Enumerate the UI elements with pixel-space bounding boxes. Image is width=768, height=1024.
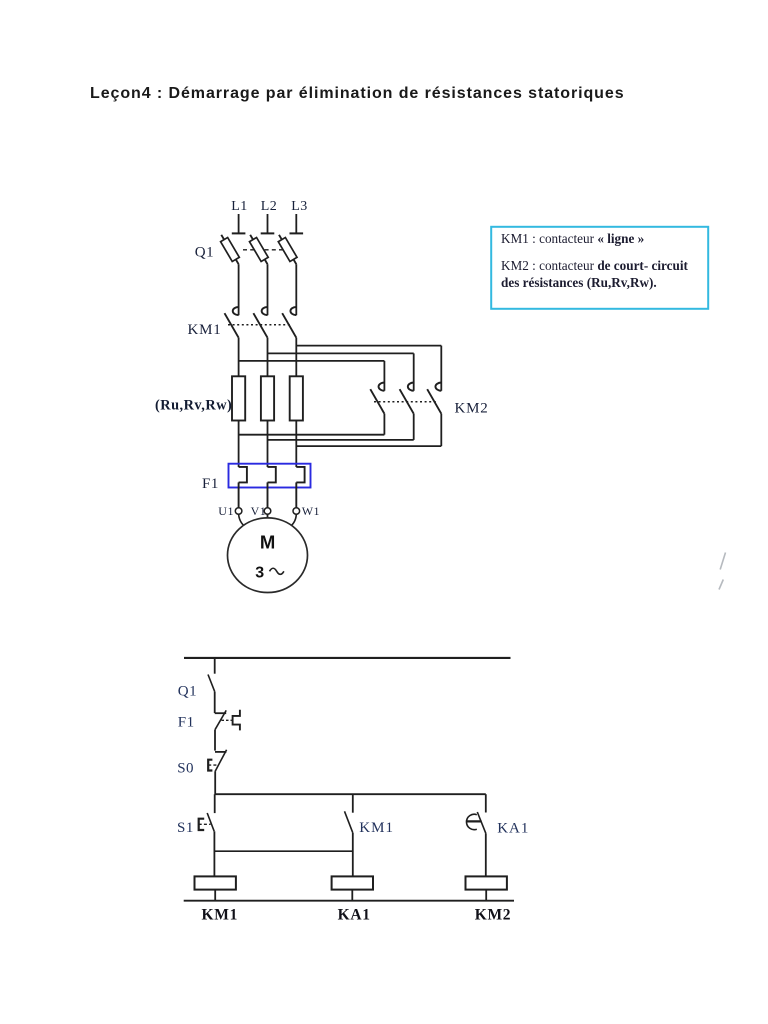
svg-text:KA1: KA1	[338, 906, 371, 923]
svg-text:Q1: Q1	[195, 245, 214, 261]
svg-text:M: M	[260, 531, 276, 552]
svg-text:KA1: KA1	[497, 820, 529, 836]
svg-text:des résistances (Ru,Rv,Rw).: des résistances (Ru,Rv,Rw).	[501, 275, 657, 290]
svg-text:L1: L1	[231, 199, 248, 214]
svg-text:KM1 : contacteur « ligne »: KM1 : contacteur « ligne »	[501, 231, 644, 246]
svg-text:S1: S1	[177, 820, 194, 836]
svg-text:KM2: KM2	[475, 906, 512, 923]
svg-text:(Ru,Rv,Rw): (Ru,Rv,Rw)	[155, 398, 232, 414]
svg-text:U1: U1	[218, 504, 234, 518]
svg-text:L3: L3	[291, 199, 308, 214]
svg-text:F1: F1	[202, 476, 219, 492]
svg-text:L2: L2	[261, 199, 278, 214]
svg-text:KM1: KM1	[202, 906, 239, 923]
svg-text:V1: V1	[251, 504, 267, 518]
svg-text:F1: F1	[178, 714, 195, 730]
svg-text:KM2: KM2	[455, 400, 489, 416]
svg-text:KM1: KM1	[188, 322, 222, 338]
svg-text:S0: S0	[177, 760, 194, 776]
svg-text:KM2 : contacteur de court- cir: KM2 : contacteur de court- circuit	[501, 258, 688, 273]
svg-text:KM1: KM1	[359, 820, 394, 836]
svg-text:W1: W1	[302, 504, 320, 518]
svg-text:3: 3	[255, 564, 264, 581]
svg-text:Q1: Q1	[178, 683, 197, 699]
